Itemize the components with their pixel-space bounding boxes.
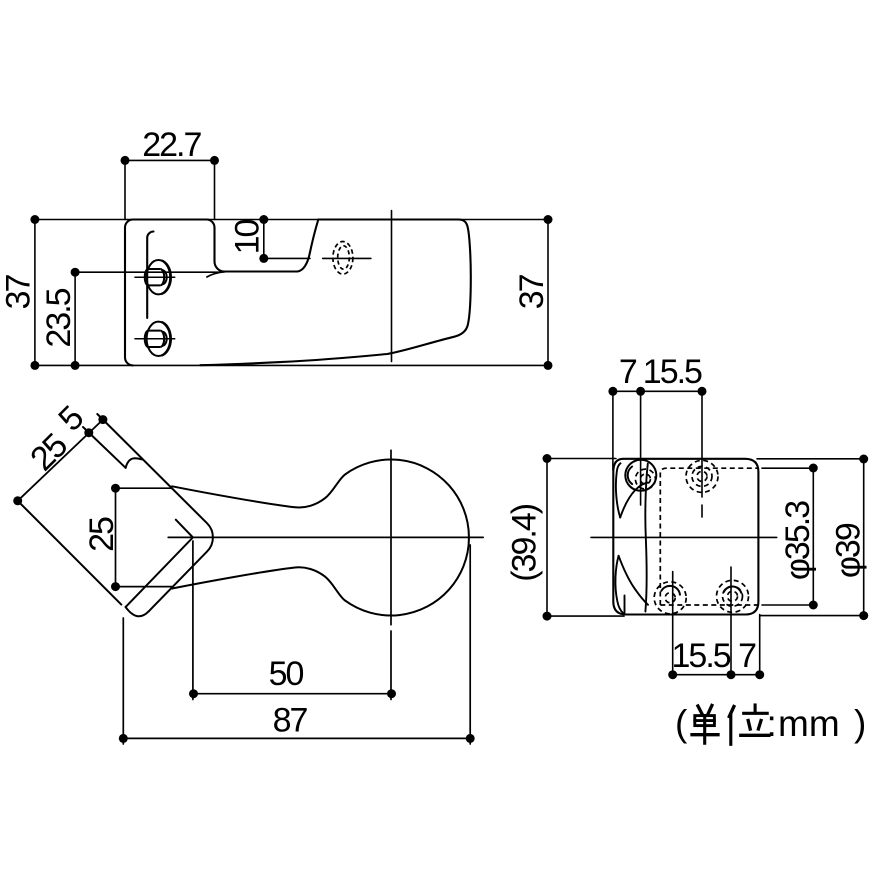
svg-text:(39.4): (39.4) [506, 504, 544, 581]
svg-text:23.5: 23.5 [40, 288, 78, 347]
svg-text:7: 7 [619, 353, 637, 391]
svg-text:(: ( [675, 703, 688, 744]
svg-text:φ39: φ39 [830, 523, 868, 578]
svg-text:): ) [854, 703, 866, 744]
svg-text:37: 37 [0, 275, 38, 310]
svg-text:37: 37 [513, 274, 551, 309]
svg-text:25: 25 [83, 517, 121, 552]
svg-text:mm: mm [778, 703, 840, 744]
svg-text:φ35.3: φ35.3 [779, 501, 817, 580]
svg-text:10: 10 [229, 220, 267, 255]
svg-text:22.7: 22.7 [142, 126, 201, 164]
svg-text:15.5: 15.5 [643, 353, 702, 391]
svg-text:7: 7 [738, 637, 756, 675]
svg-text::: : [767, 703, 777, 744]
svg-text:15.5: 15.5 [672, 637, 731, 675]
svg-text:87: 87 [273, 702, 308, 740]
svg-text:50: 50 [269, 655, 304, 693]
